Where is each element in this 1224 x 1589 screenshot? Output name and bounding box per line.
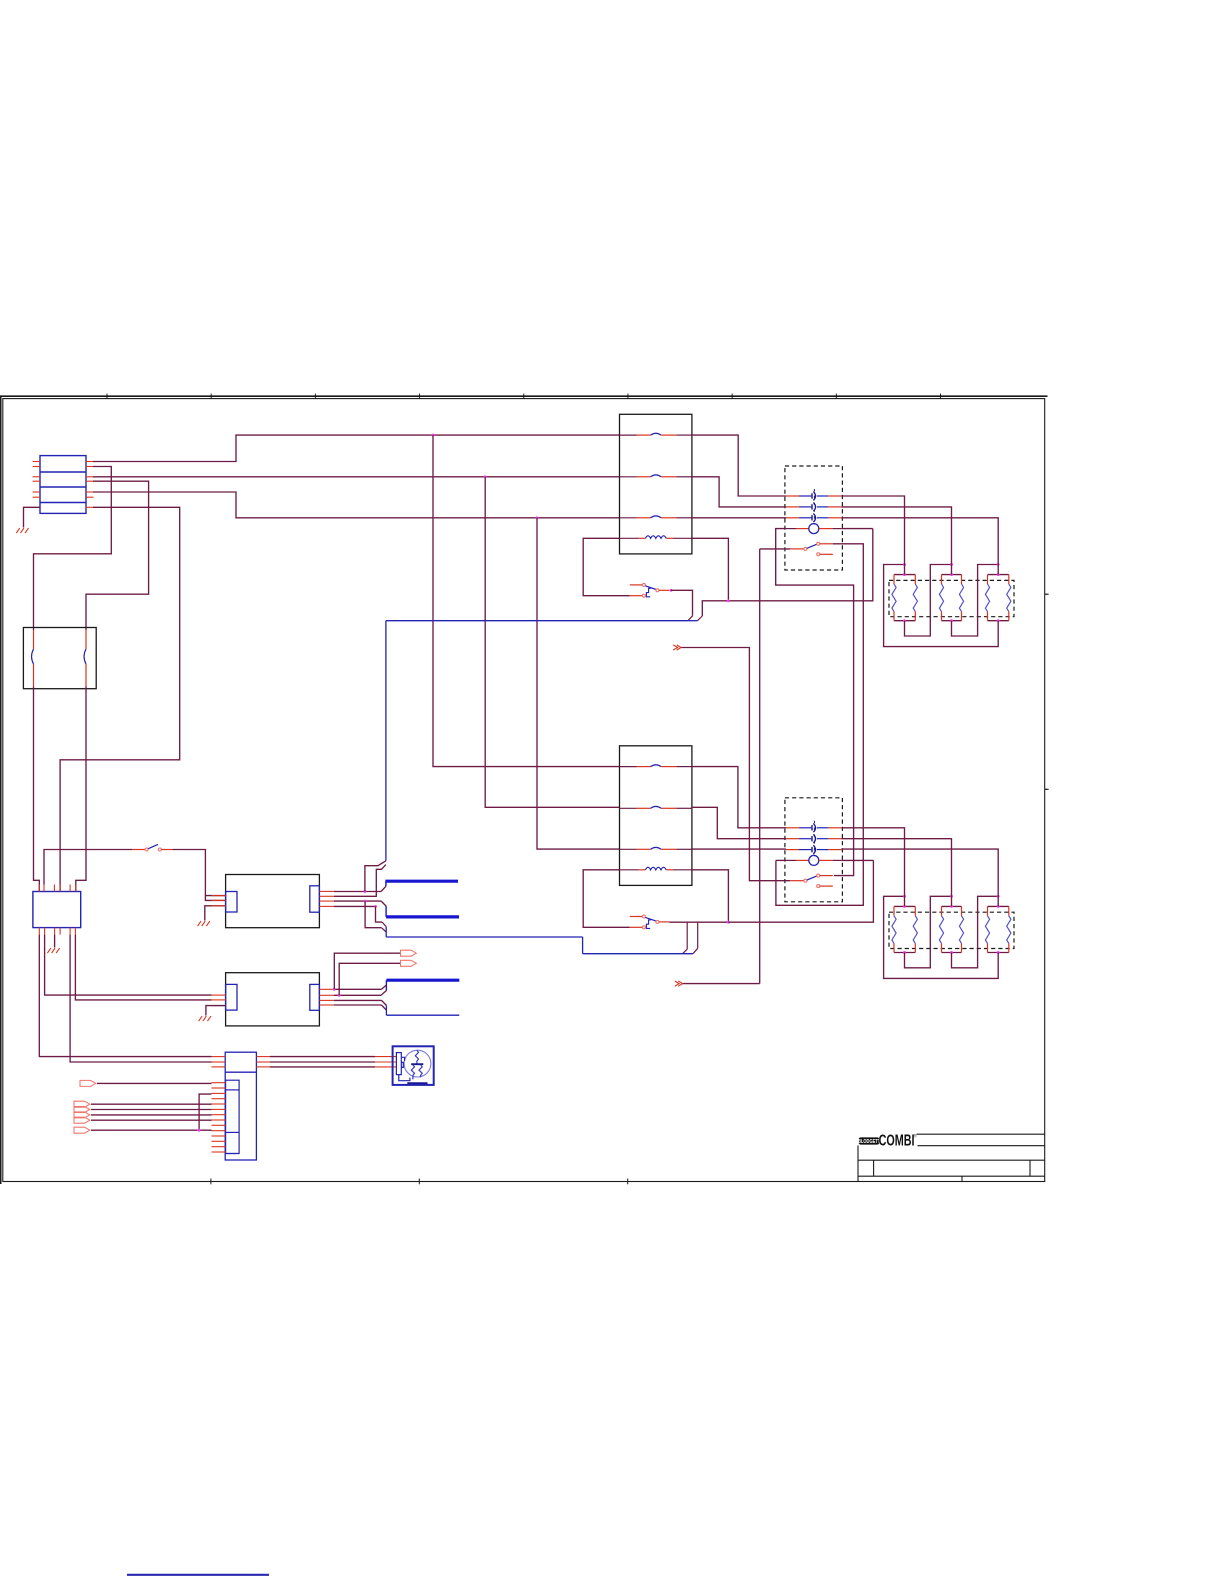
terminal strip X1 body — [225, 1052, 256, 1160]
wire switch S1 to oven blue bus — [671, 590, 693, 620]
sheet frame outer left border — [0, 396, 2, 1184]
sheet frame inner border rectangle — [3, 399, 1045, 1182]
spade terminal SP7 — [401, 950, 417, 956]
heater element R1-3R — [1007, 575, 1011, 621]
power supply PSU2 left pin leads — [212, 995, 226, 1006]
auxiliary contact box A1 dashed outline — [785, 466, 843, 570]
auxiliary contact box A2 dashed outline — [785, 798, 843, 902]
power supply PSU1 left pin leads — [212, 896, 226, 906]
wire K1 row2 to aux A1 contact2 — [692, 477, 786, 507]
svg-text:BLODGETT: BLODGETT — [858, 1138, 880, 1144]
wire PSU2 pin4 row — [334, 1004, 382, 1006]
thin blue line left riser section1 — [385, 927, 387, 937]
power supply PSU2 right pin leads — [319, 989, 334, 1005]
terminal strip X1 left pin leads upper — [212, 1057, 226, 1067]
blue bus wire section1 vertical — [385, 621, 387, 861]
heater bank R1 delta link pair2-bottom to phase3 — [952, 565, 999, 637]
spade terminal SP3 — [74, 1107, 90, 1113]
wire K2 row2 to aux A2 contact2 — [692, 807, 786, 838]
wire aux A2 contact2 to heater bank R2 phase2 — [841, 839, 951, 907]
wire spade SP3 to terminal X1 — [91, 1109, 212, 1111]
heater element R2-3R — [1007, 906, 1011, 952]
wire CM pin6 to PSU2 pin2 — [75, 935, 211, 1000]
heater element R2-2R — [959, 906, 963, 952]
blue bus wire section2 horizontal — [583, 953, 693, 955]
wire K1 row1 to aux A1 contact1 — [692, 435, 786, 496]
connector J1 right pin stubs — [86, 462, 94, 508]
contactor K1 main contact 2 — [620, 475, 692, 477]
wire spade SP6 to terminal X1 — [91, 1129, 212, 1131]
switch S2 thermostat — [630, 915, 670, 929]
title block row divider vertical left — [873, 1160, 875, 1176]
auxiliary changeover switch A2 — [790, 874, 833, 888]
contact linkage dashed line A1 — [813, 489, 815, 525]
power supply PSU2 left tab — [226, 984, 237, 1010]
auxiliary contact A1-1 — [786, 492, 841, 501]
wire phase L3 branch down to contactor K2 row3 — [537, 518, 620, 849]
title block row divider vertical right — [1029, 1160, 1031, 1176]
diagonal PSU1 pin1 to bus B1 — [381, 886, 386, 891]
heater element R2-1R — [913, 906, 917, 952]
heater bank R1 delta link pair3-bottom to phase1 — [884, 565, 999, 647]
wire CM pin2 to door switch S3 — [44, 850, 132, 885]
terminal strip X1 left pin leads lower — [212, 1083, 226, 1152]
heater bank R1 delta link pair1-bottom to phase2 — [905, 565, 952, 637]
power supply PSU2 outline — [226, 973, 320, 1026]
diagonal PSU2 pin4 to thin line riser — [382, 1005, 387, 1010]
title block rule above logo line — [917, 1133, 1045, 1135]
motor M1 wire 3 — [270, 1066, 396, 1068]
bus bar B3 drop — [385, 980, 387, 990]
contactor K2 main contact 2 — [620, 806, 692, 808]
wire PSU1 pin3 row — [334, 900, 381, 902]
indicator lamp A1 — [786, 524, 841, 534]
wire spade SP4 to terminal X1 — [91, 1114, 212, 1116]
wire riser terminal X1 row to SP6 node — [199, 1094, 211, 1130]
heater element R1-1R — [913, 575, 917, 621]
wire PSU2 pin1 row — [334, 988, 382, 990]
auxiliary contact A2-1 — [786, 823, 841, 832]
wire spade SP2 to terminal X1 — [91, 1103, 212, 1105]
wire phase L3 from J1 to contactor K1 row3 — [93, 492, 620, 518]
wire CM pin1 to terminal X1-1 — [39, 935, 211, 1057]
title block logo BLODGETT COMBI — [858, 1132, 917, 1149]
title block lower horizontal rule — [858, 1175, 1045, 1177]
bus bar B2 riser — [385, 906, 387, 917]
heater bank R2 phase drop dots — [903, 895, 1000, 898]
spade terminal SP5 — [74, 1117, 90, 1123]
junction dots heater pair R2-1 — [903, 905, 906, 954]
wire J1 pin4 to breaker CB2 — [86, 481, 149, 630]
thick blue bus bar B3 — [386, 979, 459, 982]
wire aux A1 lamp right lead to node N1 riser — [841, 528, 873, 530]
wire contactor K1 coil right to node N1 — [692, 538, 729, 601]
power supply PSU1 right pin leads — [319, 891, 334, 906]
wire CB2 to control module — [76, 687, 86, 892]
heater element R2-1L — [892, 906, 896, 952]
diagonal PSU2 pin2 to bus B3 drop — [381, 991, 386, 996]
wire contactor K2 coil right to node N2 — [692, 870, 729, 922]
auxiliary contact A1-3 — [786, 513, 841, 522]
wire phase L1 branch down to contactor K2 row1 — [433, 435, 620, 766]
junction dots heater pair R2-3 — [997, 905, 1000, 954]
junction node N2 — [727, 921, 730, 924]
auxiliary contact A1-2 — [786, 503, 841, 512]
off-page connector arrow P2 — [675, 981, 683, 986]
heater bank R2 delta link pair2-bottom to phase3 — [952, 896, 999, 968]
wire spade SP5 to terminal X1 — [91, 1119, 212, 1121]
junction node C on phase L3 — [536, 516, 539, 519]
wire K1 row3 to aux A1 contact3 — [692, 517, 786, 519]
motor M1 wire 1 — [270, 1056, 396, 1058]
heater pair R1-1 frame — [894, 575, 915, 621]
wire PSU1 pin3 to ground G3 — [205, 906, 226, 921]
wire spade SP1 to terminal X1 — [97, 1082, 212, 1084]
junction dots heater pair R2-2 — [950, 905, 953, 954]
top border zone tick marks — [107, 394, 941, 399]
wire phase L2 from J1 to contactor K1 row2 — [93, 476, 620, 478]
wire node N2 to aux A2 lamp right lead — [728, 860, 873, 922]
junction dots heater pair R1-3 — [997, 573, 1000, 622]
wire K2 row1 to aux A2 contact1 — [692, 767, 786, 828]
control module CM top pin stubs — [39, 885, 76, 892]
ground symbol G1 below connector J1 — [16, 528, 28, 533]
power supply PSU1 outline — [226, 875, 320, 928]
breaker CB1 element — [32, 630, 34, 687]
thin blue line riser section2 — [385, 1005, 387, 1015]
diagonal PSU2 pin3 to thin line riser — [382, 1000, 387, 1005]
contactor K1 main contact 3 — [620, 516, 692, 518]
heater pair R1-3 frame — [988, 575, 1009, 621]
auxiliary contact A2-3 — [786, 845, 841, 854]
contactor K1 main contact 1 — [620, 433, 692, 435]
wire switch S2 to node N2 — [669, 921, 728, 923]
auxiliary changeover switch A1 — [790, 542, 833, 556]
blue bus stub section1 right — [688, 620, 697, 622]
title block left vertical rule — [857, 1145, 859, 1181]
spade terminal SP1 — [80, 1080, 96, 1086]
ground symbol G4 below PSU2 — [199, 1016, 211, 1021]
wire aux A1 switch common down to off-page arrow P2 — [760, 549, 790, 984]
heater pair R1-2 frame — [942, 575, 962, 621]
wire blue bus to node N1 — [697, 601, 728, 621]
PSU1 pin3 link down to thin blue line — [365, 901, 386, 932]
junction dots heater pair R1-1 — [903, 573, 906, 622]
heater bank R1 dashed outline — [889, 580, 1014, 616]
heater bank R2 delta link pair1-bottom to phase2 — [905, 896, 952, 968]
heater element R2-3L — [985, 906, 989, 952]
right border zone tick marks — [1045, 594, 1049, 789]
door switch S3 — [132, 844, 172, 851]
title block bottom cell divider — [961, 1176, 963, 1181]
riser PSU2 pin2 to spade SP8 — [339, 963, 400, 995]
wire PSU1 pin2 riser — [334, 865, 386, 897]
motor M1 wire 2 — [270, 1061, 396, 1063]
power supply PSU1 right tab — [310, 886, 320, 912]
heater element R1-2R — [959, 575, 963, 621]
contactor K2 coil — [620, 867, 692, 870]
junction dot PSU2 pin1 — [333, 988, 336, 991]
heater element R1-1L — [892, 575, 896, 621]
title block middle horizontal rule — [858, 1159, 1045, 1161]
spade terminal SP6 — [74, 1127, 90, 1133]
wire node N1 to lamp H1 right lead — [728, 529, 872, 601]
bottom border zone tick marks — [211, 1179, 628, 1185]
wire PSU1 pin4 row — [334, 905, 376, 907]
spade terminal SP8 — [401, 960, 417, 966]
switch S1 thermostat — [630, 583, 670, 597]
heater bank R1 phase drop dots — [903, 563, 1000, 566]
diagonal PSU1 pin3 to bus B2 — [381, 901, 386, 906]
breaker box CB outline — [23, 628, 96, 689]
wire PSU2 pin3 row — [334, 999, 382, 1001]
thick blue bus bar B1 — [385, 880, 458, 883]
wire CM pin5 to terminal X1-2 — [70, 935, 211, 1062]
connector J1 body — [40, 456, 86, 514]
wire CM pin2b to PSU2 pin1 — [45, 935, 212, 996]
heater pair R2-1 frame — [894, 906, 915, 952]
off-page connector arrow P1 — [673, 645, 681, 650]
wire PSU2 pin3 to ground G4 — [206, 1006, 226, 1016]
riser PSU1 pin1 to blue bus vertical — [365, 861, 386, 892]
wire PSU2 pin2 row — [334, 994, 381, 996]
junction dot SP6 riser — [198, 1129, 201, 1132]
wire aux A2 contact3 to heater bank R2 phase3 — [841, 849, 998, 906]
spade terminal SP4 — [74, 1112, 90, 1118]
heater bank R2 dashed outline — [889, 912, 1014, 948]
thin blue line section2 — [386, 1014, 459, 1016]
off-page arrow P2 wire — [682, 983, 759, 985]
junction dot PSU2 pin2 — [338, 994, 341, 997]
wire aux A1 switch NO contact to aux A2 lamp left — [776, 544, 863, 906]
junction dots heater pair R1-2 — [950, 573, 953, 622]
blue bus wire section2 riser — [386, 937, 582, 954]
wire contactor K1 coil left to switch S1 — [583, 538, 630, 595]
contactor K2 box outline — [620, 746, 692, 886]
wire K2 row3 to aux A2 contact3 — [692, 848, 786, 850]
control module CM body — [33, 892, 81, 928]
section2 blue bus drop from switch wire left — [683, 922, 688, 954]
contactor K1 box outline — [620, 414, 692, 554]
junction dot PSU1 pin4 — [374, 905, 377, 908]
wire J1 pin7 to control module — [60, 507, 180, 891]
sheet frame outer top border — [0, 395, 1048, 397]
connector J1 left pin stubs — [33, 462, 40, 498]
junction node N1 — [727, 599, 730, 602]
thick blue bus bar B2 — [386, 915, 459, 918]
heater element R1-3L — [985, 575, 989, 621]
junction dot PSU1 pin1 — [363, 890, 366, 893]
wire PSU1 pin1 row — [334, 891, 381, 893]
junction node B on phase L2 — [484, 475, 487, 478]
wire aux A1 contact1 to heater bank R1 phase1 — [841, 496, 904, 575]
PSU1 pin4 link down to thin blue line — [376, 906, 387, 926]
junction node on switch S1 output — [670, 589, 673, 592]
contactor K2 main contact 3 — [620, 847, 692, 849]
contactor K1 coil — [620, 536, 692, 539]
fan motor M1 — [393, 1046, 434, 1085]
bus bar B1 left drop — [385, 881, 387, 886]
power supply PSU2 right tab — [310, 984, 320, 1010]
wire aux A2 contact1 to heater bank R2 phase1 — [841, 828, 904, 907]
wire aux A1 lamp left to aux A2 switch contact — [776, 529, 854, 876]
control module CM bottom pin stubs — [39, 928, 75, 935]
underline mark at page bottom — [127, 1574, 269, 1576]
wire door switch S3 to PSU1 input pins — [172, 850, 225, 901]
wire aux A2 lamp left lead down — [775, 860, 777, 880]
off-page arrow P1 wire — [681, 648, 790, 881]
terminal strip X1 right pin leads — [256, 1057, 270, 1067]
wire phase L1 from J1 to contactor K1 row1 — [93, 435, 620, 461]
power supply PSU1 left tab — [226, 892, 237, 913]
wire contactor K2 coil left to switch S2 — [583, 870, 630, 928]
diagonal PSU2 pin1 to bus B3 — [382, 985, 387, 989]
heater pair R2-3 frame — [988, 906, 1009, 952]
wire aux A1 contact3 to heater bank R1 phase3 — [841, 518, 998, 575]
breaker CB2 element — [84, 630, 86, 687]
contact linkage dashed line A2 — [813, 821, 815, 857]
heater element R2-2L — [939, 906, 943, 952]
ground symbol G3 below PSU1 — [198, 921, 210, 926]
heater pair R2-2 frame — [942, 906, 962, 952]
junction dot PSU1 pin3 — [364, 900, 367, 903]
heater element R1-2L — [939, 575, 943, 621]
title block rule below logo line — [918, 1145, 1045, 1147]
junction node A on phase L1 — [432, 434, 435, 437]
auxiliary contact A2-2 — [786, 834, 841, 843]
heater bank R2 delta link pair3-bottom to phase1 — [884, 896, 999, 978]
riser PSU2 pin1 to spade SP7 — [334, 953, 400, 989]
wire phase L2 branch down to contactor K2 row2 — [485, 477, 619, 808]
wire CB1 to control module — [34, 687, 40, 892]
wire J1 pin2 to breaker CB1 — [34, 467, 112, 631]
blue bus wire section1 horizontal — [386, 620, 688, 622]
spade terminal SP2 — [74, 1101, 90, 1107]
ground symbol G2 below control module — [47, 948, 59, 953]
wire aux A1 contact2 to heater bank R1 phase2 — [841, 507, 951, 575]
svg-text:COMBI: COMBI — [879, 1132, 915, 1149]
wire CM to ground G2 — [54, 935, 56, 948]
indicator lamp A2 — [786, 855, 841, 865]
contactor K2 main contact 1 — [620, 765, 692, 767]
section2 blue bus drop from switch wire right — [693, 922, 698, 954]
wire J1 pin8 to ground — [24, 507, 41, 527]
